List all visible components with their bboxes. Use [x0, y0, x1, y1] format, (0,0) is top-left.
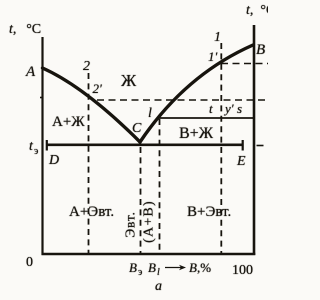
vertical dashed line eutectic composition	[140, 147, 142, 253]
liquidus curve A-C	[43, 68, 141, 142]
svg-text:s: s	[237, 101, 242, 116]
svg-text:2′: 2′	[93, 81, 103, 96]
svg-text:t, °C: t, °C	[246, 3, 268, 18]
svg-text:D: D	[48, 153, 59, 168]
eutectic temp tick right of right axis	[257, 145, 264, 147]
svg-text:(А+В): (А+В)	[142, 200, 157, 243]
svg-text:0: 0	[26, 255, 33, 270]
svg-text:A: A	[25, 64, 36, 80]
svg-text:В: В	[129, 260, 137, 275]
svg-text:B: B	[256, 42, 265, 58]
svg-text:а: а	[155, 279, 162, 294]
svg-text:100: 100	[232, 263, 253, 278]
left temperature axis	[41, 37, 43, 255]
horizontal dashed line at 1' temperature	[221, 63, 268, 65]
svg-text:А+Эвт.: А+Эвт.	[69, 204, 114, 220]
svg-text:y′: y′	[223, 101, 234, 116]
tie line l-s at temperature t	[158, 117, 254, 119]
eutectic line D-E	[46, 144, 244, 147]
D end cap	[46, 140, 48, 151]
svg-text:В+Эвт.: В+Эвт.	[187, 204, 231, 220]
svg-text:t, °C: t, °C	[9, 22, 41, 37]
bottom composition axis	[42, 253, 256, 256]
svg-text:1′: 1′	[208, 49, 218, 64]
svg-text:э: э	[34, 146, 38, 157]
right temperature axis	[253, 25, 256, 255]
svg-text:А+Ж: А+Ж	[52, 114, 85, 130]
svg-text:t: t	[209, 101, 213, 116]
svg-text:В+Ж: В+Ж	[179, 125, 214, 142]
axis arrow	[165, 267, 182, 269]
vertical dashed line alloy 1	[220, 43, 222, 253]
svg-text:E: E	[236, 154, 246, 169]
svg-text:Ж: Ж	[121, 71, 137, 90]
svg-text:2: 2	[83, 59, 90, 74]
svg-text:э: э	[138, 267, 142, 278]
svg-text:l: l	[148, 106, 152, 121]
E end cap	[242, 140, 244, 151]
svg-text:В,%: В,%	[189, 260, 211, 275]
horizontal dashed line at 2' temperature	[97, 99, 268, 101]
left axis small tick	[40, 97, 43, 99]
svg-text:l: l	[157, 267, 160, 278]
vertical dashed line alloy 2	[88, 73, 90, 253]
svg-text:C: C	[132, 121, 142, 136]
svg-text:В: В	[148, 260, 156, 275]
liquidus curve C-B	[140, 45, 253, 142]
svg-text:1: 1	[214, 30, 221, 45]
vertical dashed line B_l composition	[159, 119, 161, 253]
svg-text:Эвт.: Эвт.	[123, 211, 138, 237]
